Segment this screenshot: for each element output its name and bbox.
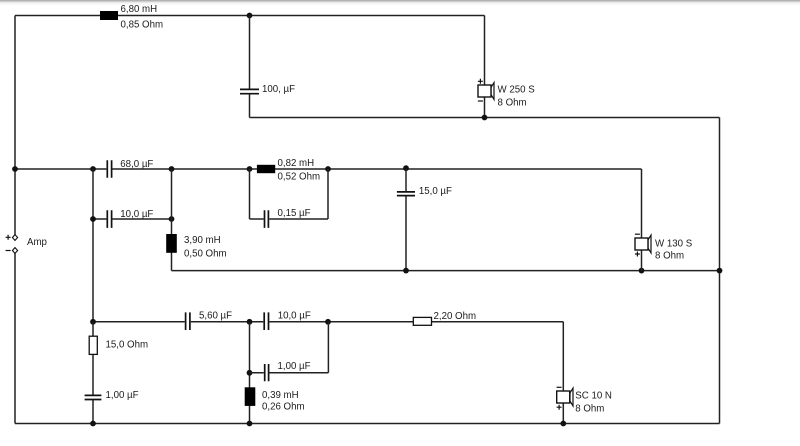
svg-text:0,39 mH: 0,39 mH <box>262 390 299 401</box>
svg-text:8 Ohm: 8 Ohm <box>575 403 604 414</box>
wire: left vertical from top rail down to amp + terminal <box>14 16 16 235</box>
svg-text:8 Ohm: 8 Ohm <box>655 251 684 262</box>
capacitor 100 uF (plates) <box>240 89 259 93</box>
amp - terminal (diamond) <box>12 248 17 254</box>
wire: W130S column from mid rail down <box>641 169 643 271</box>
node: junction x=93 y=321.8 <box>90 319 96 325</box>
svg-text:68,0 µF: 68,0 µF <box>120 159 153 170</box>
resistor 15,0 Ohm <box>89 336 97 354</box>
svg-text:0,15 µF: 0,15 µF <box>278 208 311 219</box>
node: junction lower mid rail / W130S <box>639 268 645 274</box>
capacitor 0,15 uF <box>265 210 269 228</box>
svg-text:1,00 µF: 1,00 µF <box>106 390 139 401</box>
amp - sign <box>6 250 11 252</box>
capacitor 1,00 uF (bypass) <box>265 364 269 381</box>
node: junction x=93 bottom rail <box>90 421 96 427</box>
speaker SC 10 N <box>557 387 573 409</box>
wire: W250S loop bottom rail <box>250 117 720 119</box>
node: junction lower mid rail / right edge <box>717 268 723 274</box>
node: junction x=249.5 y=372.8 <box>247 370 253 376</box>
capacitor 15,0 uF (plates) <box>397 192 415 196</box>
wire: 15uF branch lower segment <box>405 196 407 270</box>
svg-text:0,26 Ohm: 0,26 Ohm <box>262 402 305 413</box>
wire: top rail from amp+ column to W250S column <box>15 15 485 17</box>
svg-text:0,82 mH: 0,82 mH <box>278 158 315 169</box>
amp + terminal (diamond) <box>12 235 17 241</box>
inductor 0,39 mH <box>245 387 256 406</box>
svg-text:15,0 Ohm: 15,0 Ohm <box>106 339 149 350</box>
node: junction lower mid rail / 15uF <box>403 268 409 274</box>
capacitor 10,0 uF (mid, parallel with 68uF) <box>107 210 111 228</box>
wire: 10uF row right segment <box>112 218 171 220</box>
capacitor 1,00 uF (left shunt, plates) <box>85 395 102 399</box>
node: junction mid rail x=328 <box>325 166 331 172</box>
svg-text:W 130 S: W 130 S <box>655 238 693 249</box>
node: junction x=249.5 y=321.8 <box>247 319 253 325</box>
node: junction mid rail x=171.5 <box>169 166 175 172</box>
wire: 10uF row left segment <box>93 218 106 220</box>
wire: bottom rail <box>15 423 720 425</box>
node: junction mid rail x=93 <box>90 166 96 172</box>
svg-text:0,52 Ohm: 0,52 Ohm <box>278 172 321 183</box>
resistor 2,20 Ohm <box>413 317 431 325</box>
capacitor 5,60 uF <box>186 312 190 330</box>
capacitor 68,0 uF (series, mid rail) <box>107 160 111 178</box>
wire: vertical x=171.5 from mid rail through 3.90mH to lower mid rail <box>171 169 173 271</box>
wire: 100uF branch upper segment <box>249 16 251 89</box>
svg-text:1,00 µF: 1,00 µF <box>278 361 311 372</box>
wire: 0.15uF bypass branch (left drop, bottom run, right rise) <box>250 169 329 219</box>
wire: woofer-section top rail (x=93 to SC10N corner) <box>93 321 563 323</box>
node: junction x=249.5 bottom rail <box>247 421 253 427</box>
node: junction mid rail / amp column <box>12 166 18 172</box>
inductor 3,90 mH <box>166 234 177 253</box>
svg-text:0,85 Ohm: 0,85 Ohm <box>121 20 164 31</box>
svg-text:8 Ohm: 8 Ohm <box>498 97 527 108</box>
speaker W 130 S <box>635 234 651 256</box>
wire: SC10N column from woofer-section rail down to bottom rail <box>562 322 564 424</box>
wire: lower mid rail (3.90mH foot to right edge) <box>172 270 720 272</box>
svg-text:0,50 Ohm: 0,50 Ohm <box>184 249 227 260</box>
svg-text:W 250 S: W 250 S <box>498 85 536 96</box>
wire: mid rail right part <box>112 168 641 170</box>
node: junction x=93 y=219 <box>90 216 96 222</box>
speaker W 250 S <box>478 79 494 101</box>
svg-text:10,0 µF: 10,0 µF <box>120 209 153 220</box>
inductor 6,80 mH (series, top rail) <box>100 11 118 20</box>
node: junction mid rail x=249.5 <box>247 166 253 172</box>
wire: left vertical from amp - terminal down to bottom rail <box>14 253 16 423</box>
svg-text:5,60 µF: 5,60 µF <box>199 310 232 321</box>
svg-text:2,20 Ohm: 2,20 Ohm <box>434 311 477 322</box>
wire: 100uF branch lower segment <box>249 94 251 117</box>
wire: 1uF bypass branch (right of 10uF) <box>250 322 329 373</box>
wire: left shunt branch x=93 (15 Ohm + 1uF) <box>92 322 94 424</box>
capacitor 10,0 uF (tweeter series) <box>264 312 268 330</box>
svg-text:6,80 mH: 6,80 mH <box>121 4 158 15</box>
node: junction x=328 y=321.8 <box>325 319 331 325</box>
wire: vertical from top rail through W250S to loop bottom <box>484 16 486 118</box>
node: junction mid rail / 15uF branch <box>403 165 409 171</box>
svg-text:Amp: Amp <box>27 237 47 248</box>
svg-text:10,0 µF: 10,0 µF <box>278 310 311 321</box>
wire: right edge vertical (return) <box>719 118 721 424</box>
amp + sign <box>6 235 11 240</box>
node: junction W250S / loop bottom rail <box>482 115 488 121</box>
wire: vertical x=93 from mid rail to lower section <box>92 169 94 322</box>
inductor 0,82 mH (series, mid rail) <box>257 165 275 173</box>
svg-text:15,0 µF: 15,0 µF <box>419 186 452 197</box>
node: junction top rail / 100uF branch <box>247 13 253 19</box>
svg-text:100, µF: 100, µF <box>262 84 295 95</box>
node: junction SC10N bottom rail <box>560 421 566 427</box>
wire: mid rail (amp to W130S column) left part <box>15 168 106 170</box>
svg-text:3,90 mH: 3,90 mH <box>184 235 221 246</box>
wire: tweeter shunt column x=249.5 down to bottom rail <box>249 322 251 424</box>
node: junction x=171.5 y=219 <box>169 216 175 222</box>
top window border line <box>0 0 800 5</box>
wire: 15uF branch upper segment <box>405 169 407 191</box>
svg-text:SC 10 N: SC 10 N <box>575 391 612 402</box>
